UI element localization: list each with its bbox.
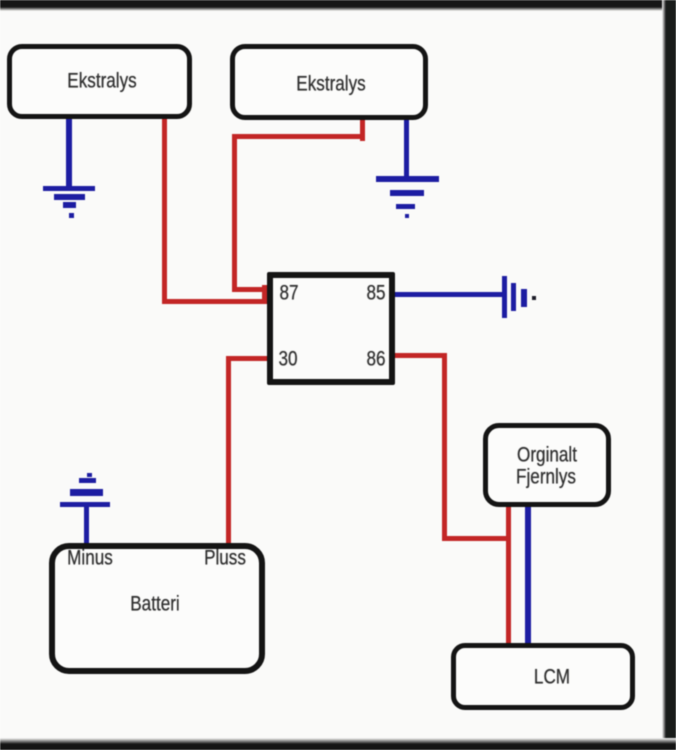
box Orginalt Fjernlys: [483, 423, 611, 507]
right black border bar: [666, 0, 676, 750]
wire blue relay 85 to chassis ground (horizontal): [394, 292, 504, 297]
wire red relay 30 to battery Pluss (horizontal): [227, 356, 268, 361]
pin label 86: [366, 349, 385, 370]
label LCM: [534, 667, 570, 688]
wire blue Ekstralys2 to ground: [404, 117, 409, 179]
bottom black border bar: [0, 744, 676, 750]
label Ekstralys 2: [296, 74, 365, 95]
wire red Ekstralys1 to relay 87 (vertical): [162, 116, 167, 304]
pin label 85: [366, 283, 385, 304]
relay box: [267, 272, 395, 385]
wire blue Ekstralys1 to ground: [66, 116, 72, 190]
wire red Ekstralys2 to relay 87 (horizontal): [232, 287, 268, 292]
wire red Ekstralys1 to relay 87 (horizontal): [162, 299, 270, 304]
wire blue Orginalt Fjernlys to LCM (vertical): [525, 505, 531, 645]
pin label 87: [279, 283, 298, 304]
label Pluss: [204, 548, 246, 569]
lamp box Ekstralys 1: [7, 44, 192, 119]
ground symbol under Ekstralys1: [0, 0, 1, 1]
wire red to Fjernlys line (horizontal): [442, 536, 511, 541]
lamp box Ekstralys 2: [230, 44, 428, 120]
wire red junction bar at pin 87: [262, 285, 270, 303]
label Batteri: [130, 594, 179, 615]
wire red relay 30 to battery Pluss (vertical): [226, 356, 231, 546]
label Minus: [67, 548, 113, 569]
top black border bar: [0, 0, 676, 7]
ground symbol under Ekstralys2: [0, 0, 1, 1]
wire blue minus terminal to Batteri: [84, 507, 89, 547]
wire red relay 86 down (vertical): [442, 353, 447, 541]
label Orginalt: [517, 445, 577, 466]
pin label 30: [278, 349, 297, 370]
wire red Ekstralys2 long vertical: [232, 134, 237, 291]
wire red Ekstralys2 drop (vertical): [360, 116, 365, 141]
wire red relay 86 (horizontal): [392, 353, 447, 358]
box Batteri: [49, 543, 265, 674]
wire red Ekstralys2 horizontal upper: [232, 134, 365, 139]
chassis ground symbol right of relay 85: [0, 0, 1, 1]
box LCM: [451, 643, 635, 710]
label Fjernlys: [516, 467, 576, 488]
wire red Orginalt Fjernlys to LCM (vertical): [506, 505, 511, 645]
label Ekstralys 1: [67, 71, 136, 92]
battery minus terminal symbol: [0, 0, 1, 1]
